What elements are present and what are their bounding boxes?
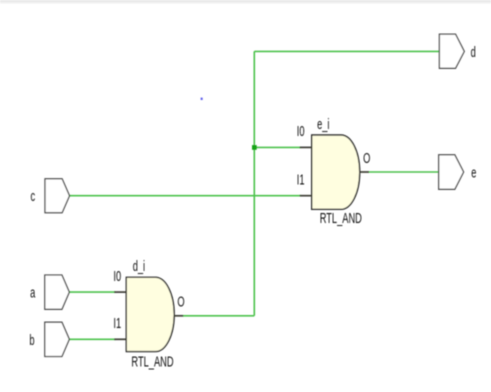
svg-text:I1: I1 (297, 171, 305, 188)
svg-text:RTL_AND: RTL_AND (131, 353, 173, 370)
output port e (439, 155, 464, 190)
wire net d: branch to e_i I0 (254, 146, 300, 148)
svg-text:e: e (471, 164, 476, 181)
wire net b: input b to d_i I1 (69, 338, 115, 340)
e_i pin I0 stub (300, 146, 312, 148)
wire net d: d_i output horizontal segment (183, 315, 255, 317)
svg-text:b: b (29, 332, 34, 349)
wire net e: e_i output to output port e (369, 171, 439, 173)
e_i pin I1 stub (300, 195, 312, 197)
wire net a: input a to d_i I0 (69, 291, 115, 293)
d_i pin I0 stub (114, 291, 126, 293)
e_i pin O stub (360, 171, 369, 173)
svg-text:O: O (363, 150, 370, 167)
d_i pin I1 stub (114, 338, 126, 340)
input port a (45, 275, 70, 309)
wire net d: vertical segment (253, 51, 255, 315)
wire net c: input c to e_i I1 (69, 195, 300, 197)
input port c (45, 179, 70, 213)
svg-text:a: a (30, 284, 35, 301)
svg-text:d_i: d_i (133, 258, 145, 275)
and-gate d_i body (126, 277, 174, 351)
wire net d: top horizontal segment to output port d (254, 50, 439, 52)
svg-text:RTL_AND: RTL_AND (320, 210, 362, 227)
svg-text:I1: I1 (113, 315, 121, 332)
stray blue cursor dot (201, 98, 203, 100)
d_i pin O stub (174, 315, 183, 317)
input port b (45, 322, 70, 356)
svg-text:d: d (471, 44, 476, 61)
svg-text:c: c (31, 188, 36, 205)
top window border bar (decorative) (0, 0, 491, 3)
svg-text:e_i: e_i (317, 116, 329, 133)
svg-text:O: O (177, 293, 184, 310)
output port d (439, 34, 464, 68)
svg-text:I0: I0 (113, 268, 121, 285)
svg-text:I0: I0 (297, 123, 305, 140)
and-gate e_i body (312, 135, 360, 209)
junction on net d (252, 145, 257, 150)
